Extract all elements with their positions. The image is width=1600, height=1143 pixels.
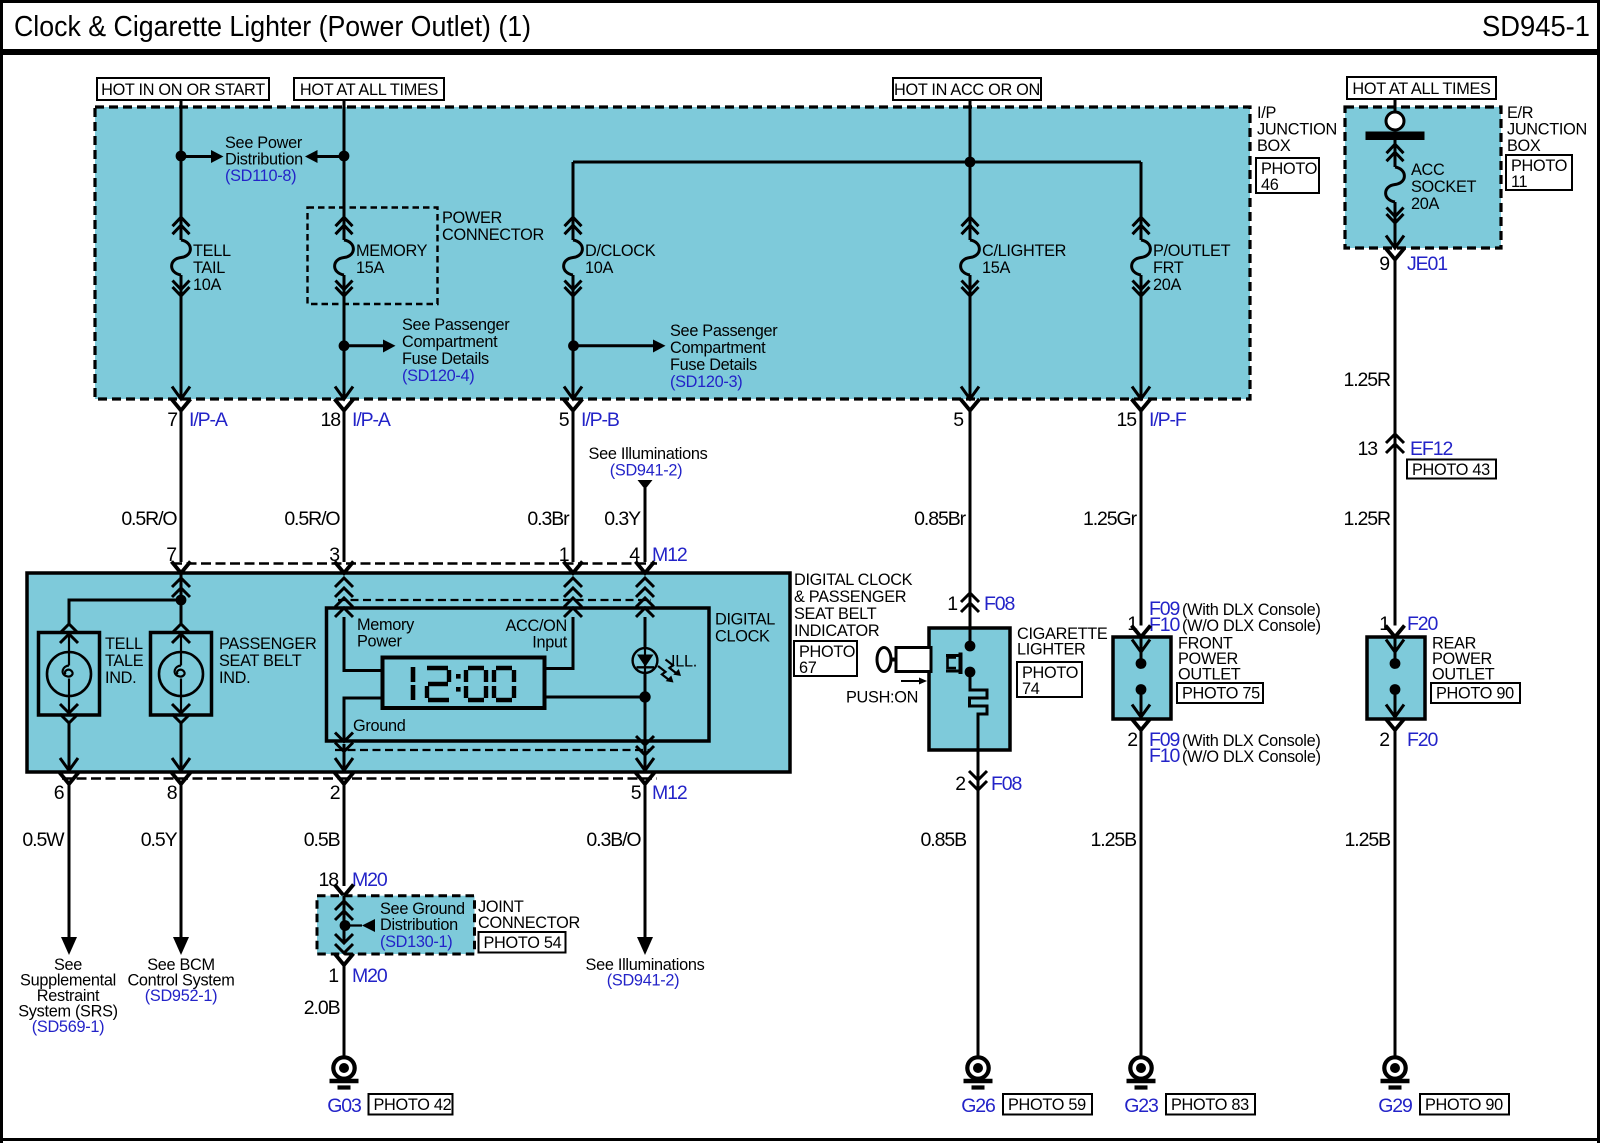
svg-text:M20: M20 — [352, 869, 388, 891]
svg-text:OUTLET: OUTLET — [1178, 666, 1241, 684]
svg-text:PHOTO 54: PHOTO 54 — [484, 934, 562, 952]
PHOTO 90 (ground) — [1420, 1094, 1509, 1115]
connector pin 5 I/P-B (box exit x=573) — [559, 387, 619, 432]
svg-text:0.5R/O: 0.5R/O — [121, 508, 177, 530]
PHOTO 11 — [1506, 155, 1572, 191]
lighter plunger knob — [877, 648, 961, 675]
fuse D/CLOCK 10A — [564, 213, 656, 296]
pin 3 entry connector (x=344) — [335, 562, 354, 598]
svg-text:See Power: See Power — [225, 134, 303, 152]
wire: tell tale lamp to box bottom — [68, 723, 71, 770]
note: See Illuminations (SD941-2) bottom — [586, 956, 705, 990]
PHOTO 54 — [479, 932, 566, 953]
node: junction tap to fuse details (wire 344) — [339, 340, 350, 351]
wire: tap to See Power Distribution (right arrow) — [181, 150, 224, 163]
svg-text:SEAT BELT: SEAT BELT — [219, 652, 302, 670]
fuse TELL TAIL 10A — [172, 213, 231, 296]
front outlet pins — [1132, 637, 1150, 717]
lamp TELL TALE IND. — [39, 624, 144, 723]
PHOTO 59 — [1003, 1094, 1092, 1115]
svg-text:See Passenger: See Passenger — [670, 322, 778, 340]
note: See BCM Control System (SD952-1) — [127, 956, 234, 1005]
pin 5 exit chevrons (x=645) — [636, 736, 654, 771]
wire: pin 8 to BCM — [173, 784, 189, 955]
wire: C/LIGHTER feed down (x=970) — [969, 411, 972, 629]
svg-text:0.5W: 0.5W — [22, 829, 65, 851]
svg-text:1: 1 — [1379, 613, 1389, 635]
ground G23 — [1124, 1057, 1158, 1117]
pin 2 exit chevrons (x=344) — [335, 733, 353, 771]
svg-text:I/P-A: I/P-A — [189, 409, 228, 431]
svg-text:BOX: BOX — [1507, 137, 1541, 155]
svg-text:G29: G29 — [1378, 1095, 1412, 1117]
svg-text:0.3Br: 0.3Br — [527, 508, 570, 530]
connector 18 M20 — [319, 869, 388, 896]
note: See Passenger Compartment Fuse Details (SD120-4) — [402, 316, 510, 385]
svg-text:CONNECTOR: CONNECTOR — [478, 914, 580, 932]
svg-text:(SD952-1): (SD952-1) — [145, 987, 217, 1005]
connector pin 7 I/P-A (box exit x=181) — [167, 387, 228, 432]
node: junction on wire 344 — [339, 151, 350, 162]
svg-text:(SD941-2): (SD941-2) — [610, 462, 682, 480]
label PUSH:ON with arrow — [846, 678, 927, 707]
svg-text:BOX: BOX — [1257, 137, 1291, 155]
svg-text:0.85B: 0.85B — [921, 829, 967, 851]
label HOT AT ALL TIMES — [294, 78, 444, 100]
svg-text:See Illuminations: See Illuminations — [589, 445, 708, 463]
wire: to ground G29 — [1394, 730, 1397, 1057]
wire: P/OUTLET drop (x=1141) — [1140, 162, 1143, 213]
exit arrow (x=181) — [172, 758, 190, 771]
svg-text:ACC: ACC — [1411, 161, 1445, 179]
POWER CONNECTOR dashed box — [308, 208, 544, 305]
svg-text:2.0B: 2.0B — [304, 997, 340, 1019]
svg-text:TAIL: TAIL — [193, 259, 225, 277]
PHOTO 43 — [1407, 460, 1496, 480]
svg-text:OUTLET: OUTLET — [1432, 666, 1495, 684]
svg-text:2: 2 — [955, 773, 965, 795]
svg-text:M20: M20 — [352, 965, 388, 987]
wire: ACC/ON feed down (x=970) — [969, 100, 972, 213]
svg-text:0.5Y: 0.5Y — [141, 829, 178, 851]
fuse ACC SOCKET 20A — [1386, 140, 1477, 223]
svg-text:Fuse Details: Fuse Details — [670, 356, 757, 374]
node: ill junction dot — [639, 691, 650, 702]
label HOT IN ON OR START — [97, 78, 269, 100]
svg-text:PHOTO 75: PHOTO 75 — [1182, 685, 1260, 703]
component CIGARETTE LIGHTER — [929, 625, 1108, 750]
wire: pin 6 to SRS — [61, 784, 77, 955]
svg-text:DIGITAL: DIGITAL — [715, 611, 775, 629]
wire: lighter output below box — [977, 750, 980, 797]
svg-text:2: 2 — [1127, 729, 1137, 751]
label HOT IN ACC OR ON — [893, 78, 1041, 100]
connector 2 F08 — [955, 771, 1021, 795]
wire: I/P-A 7 down to clock (x=181) — [180, 411, 183, 563]
svg-text:46: 46 — [1261, 176, 1279, 194]
wire: down to seat belt lamp — [180, 600, 183, 624]
svg-text:F20: F20 — [1407, 729, 1439, 751]
svg-text:PHOTO 83: PHOTO 83 — [1171, 1096, 1249, 1114]
wire: battery stub into E/R box — [1394, 99, 1397, 112]
PHOTO 67 — [794, 641, 857, 677]
wire: HOT AT ALL TIMES feed down (x=344) — [343, 100, 346, 213]
svg-text:Compartment: Compartment — [402, 333, 498, 351]
wire: D/CLOCK drop (x=573) — [572, 162, 575, 213]
wire: seat belt lamp to box bottom — [180, 723, 183, 770]
svg-text:1.25R: 1.25R — [1343, 369, 1391, 391]
svg-text:1.25B: 1.25B — [1091, 829, 1137, 851]
wire: LED to ill junction — [644, 672, 647, 697]
svg-text:TELL: TELL — [193, 242, 231, 260]
svg-text:CONNECTOR: CONNECTOR — [442, 226, 544, 244]
svg-text:IND.: IND. — [219, 669, 250, 687]
svg-text:9: 9 — [1379, 253, 1389, 275]
illumination emission arrows — [658, 660, 681, 683]
component DIGITAL CLOCK and PASSENGER SEAT BELT INDICATOR assembly box — [27, 573, 790, 772]
svg-text:8: 8 — [167, 782, 177, 804]
I/P JUNCTION BOX name — [1257, 104, 1337, 155]
heating element (lighter) — [970, 672, 988, 750]
svg-text:1.25B: 1.25B — [1345, 829, 1391, 851]
svg-text:Power: Power — [357, 633, 403, 651]
connector 1 F20 (rear outlet top) — [1379, 613, 1438, 637]
ground G29 — [1378, 1057, 1412, 1117]
pin 4 internal chevrons — [636, 598, 654, 617]
wire: to ground G03 — [343, 965, 346, 1057]
pin 4 entry connector (x=645) — [636, 562, 655, 598]
svg-text:5: 5 — [953, 409, 964, 431]
svg-text:13: 13 — [1358, 438, 1378, 460]
component FRONT POWER OUTLET — [1113, 635, 1241, 720]
svg-text:POWER: POWER — [442, 209, 502, 227]
exit arrow (x=69) — [60, 758, 78, 771]
svg-text:0.3B/O: 0.3B/O — [586, 829, 641, 851]
wire: display to ill junction — [545, 696, 646, 699]
svg-text:F08: F08 — [991, 773, 1022, 795]
wire: memory power feed — [344, 617, 383, 671]
wire: EF12 down to rear outlet — [1394, 446, 1397, 626]
svg-text:1.25Gr: 1.25Gr — [1083, 508, 1138, 530]
svg-text:P/OUTLET: P/OUTLET — [1153, 242, 1231, 260]
svg-text:(W/O DLX Console): (W/O DLX Console) — [1182, 617, 1321, 635]
pin 3 internal chevrons — [335, 598, 353, 617]
svg-text:G26: G26 — [961, 1095, 995, 1117]
PHOTO 46 — [1256, 158, 1319, 194]
svg-text:F10: F10 — [1149, 745, 1181, 767]
connector 2 F09/F10 (front outlet bottom) — [1127, 719, 1321, 768]
svg-text:CLOCK: CLOCK — [715, 628, 770, 646]
wire: illumination feed with source arrow (x=645) — [638, 480, 653, 562]
svg-text:10A: 10A — [585, 259, 614, 277]
svg-text:G23: G23 — [1124, 1095, 1158, 1117]
svg-text:INDICATOR: INDICATOR — [794, 622, 879, 640]
svg-text:TELL: TELL — [105, 635, 143, 653]
component REAR POWER OUTLET — [1367, 635, 1495, 720]
E/R junction box — [1345, 107, 1501, 248]
svg-text:(SD130-1): (SD130-1) — [380, 933, 452, 951]
note: See Passenger Compartment Fuse Details (SD120-3) — [670, 322, 778, 391]
connector 1 F09/F10 (front outlet top) — [1127, 598, 1321, 637]
wire: fuse MEMORY output down to box edge — [343, 296, 346, 399]
svg-text:SOCKET: SOCKET — [1411, 178, 1477, 196]
svg-text:20A: 20A — [1411, 195, 1440, 213]
wire: front outlet feed (x=1141) — [1140, 411, 1143, 626]
svg-text:TALE: TALE — [105, 652, 144, 670]
note: See Illuminations (SD941-2) source — [589, 445, 708, 480]
svg-text:7: 7 — [167, 409, 177, 431]
svg-text:LIGHTER: LIGHTER — [1017, 641, 1085, 659]
wire: to ground G23 — [1140, 730, 1143, 1057]
node: junction at ACC bus — [965, 157, 976, 168]
wire: ground path from display — [344, 698, 383, 741]
svg-text:0.5B: 0.5B — [304, 829, 340, 851]
PHOTO 75 — [1177, 683, 1263, 703]
svg-text:15A: 15A — [356, 259, 385, 277]
wire: tap arrow right (SD120-4) — [344, 340, 396, 353]
svg-text:2: 2 — [1379, 729, 1389, 751]
svg-text:0.5R/O: 0.5R/O — [284, 508, 340, 530]
wire: pin 5 to illuminations — [637, 784, 653, 955]
svg-text:74: 74 — [1022, 680, 1040, 698]
label ACC/ON Input — [505, 617, 567, 652]
internal connector dashed line (clock bottom) — [335, 749, 651, 751]
svg-text:0.85Br: 0.85Br — [914, 508, 966, 530]
node: battery terminal circle — [1386, 112, 1404, 130]
note: See Ground Distribution (SD130-1) — [380, 900, 465, 951]
svg-text:HOT AT ALL TIMES: HOT AT ALL TIMES — [1352, 80, 1491, 98]
svg-text:6: 6 — [54, 782, 64, 804]
wire: tap to See Power Distribution (left arrow) — [305, 150, 344, 163]
wire: ACC bus horizontal y=162 — [573, 161, 1141, 164]
svg-text:PHOTO 42: PHOTO 42 — [374, 1096, 452, 1114]
svg-text:HOT IN ACC OR ON: HOT IN ACC OR ON — [894, 81, 1040, 99]
svg-text:E/R: E/R — [1507, 104, 1533, 122]
svg-text:(SD120-3): (SD120-3) — [670, 373, 742, 391]
svg-text:F08: F08 — [984, 593, 1015, 615]
svg-text:I/P: I/P — [1257, 104, 1276, 122]
svg-text:M12: M12 — [652, 782, 687, 804]
node: junction to tell tale branch — [176, 595, 187, 606]
svg-text:11: 11 — [1511, 173, 1528, 191]
svg-text:JUNCTION: JUNCTION — [1257, 121, 1337, 139]
node: lighter contact top — [965, 641, 976, 652]
ground G03 — [327, 1057, 361, 1117]
wire: fuse D/CLOCK output down — [572, 296, 575, 399]
note: See Supplemental Restraint System (SRS) (SD569-1) — [18, 956, 118, 1036]
svg-text:JUNCTION: JUNCTION — [1507, 121, 1587, 139]
svg-text:20A: 20A — [1153, 276, 1182, 294]
svg-text:I/P-B: I/P-B — [581, 409, 619, 431]
svg-text:PHOTO 90: PHOTO 90 — [1425, 1096, 1503, 1114]
svg-text:PASSENGER: PASSENGER — [219, 635, 316, 653]
LED ILL. lamp — [633, 617, 697, 673]
node: junction on wire 181 at power distribution tap — [176, 151, 187, 162]
pin 7 entry connector (x=181) — [172, 562, 191, 598]
svg-text:M12: M12 — [652, 544, 687, 566]
svg-text:10A: 10A — [193, 276, 222, 294]
fuse C/LIGHTER 15A — [961, 213, 1067, 296]
wire: fuse C/LIGHTER output down — [969, 296, 972, 399]
svg-text:Clock & Cigarette Lighter (Pow: Clock & Cigarette Lighter (Power Outlet)… — [14, 11, 531, 43]
connector pin 5 (box exit x=970) — [953, 387, 979, 432]
svg-text:JE01: JE01 — [1407, 253, 1447, 275]
wire: fuse P/OUTLET output down — [1140, 296, 1143, 399]
connector row M12 (clock top) — [166, 544, 687, 566]
pin 1 entry connector (x=573) — [564, 562, 583, 598]
svg-text:PUSH:ON: PUSH:ON — [846, 689, 918, 707]
svg-text:D/CLOCK: D/CLOCK — [585, 242, 656, 260]
wire: ACC/ON feed — [545, 617, 574, 669]
bus bar (E/R box) — [1366, 132, 1425, 141]
wire: pin 2 ground wire down to M20 — [343, 784, 346, 886]
svg-text:IND.: IND. — [105, 669, 136, 687]
ground G26 — [961, 1057, 995, 1117]
node: lighter contact bottom — [965, 667, 976, 678]
wire: ill junction down — [644, 697, 647, 770]
PHOTO 42 — [369, 1094, 453, 1115]
svg-text:PHOTO 59: PHOTO 59 — [1008, 1096, 1086, 1114]
svg-text:See Passenger: See Passenger — [402, 316, 510, 334]
svg-text:0.3Y: 0.3Y — [604, 508, 641, 530]
lamp PASSENGER SEAT BELT IND. — [151, 624, 317, 723]
wire: pin7 down to junction — [180, 573, 183, 600]
internal connector dashed line (clock top) — [338, 599, 651, 601]
svg-text:F10: F10 — [1149, 614, 1181, 636]
svg-text:C/LIGHTER: C/LIGHTER — [982, 242, 1066, 260]
connector 13 EF12 — [1358, 434, 1453, 460]
PHOTO 83 — [1166, 1094, 1255, 1115]
pin 1 internal chevrons — [564, 598, 582, 617]
connector 1 M20 — [328, 954, 388, 988]
wire: I/P-A 18 down to clock (x=344) — [343, 411, 346, 563]
svg-text:1: 1 — [328, 965, 338, 987]
wire: branch to tell tale lamp — [69, 600, 181, 624]
svg-text:F20: F20 — [1407, 613, 1439, 635]
E/R JUNCTION BOX name — [1507, 104, 1587, 155]
wire: to ground G26 — [977, 797, 980, 1057]
svg-text:1: 1 — [947, 593, 957, 615]
label Memory Power — [357, 616, 415, 651]
svg-text:(SD569-1): (SD569-1) — [32, 1018, 104, 1036]
svg-text:Ground: Ground — [353, 717, 406, 735]
svg-text:ILL.: ILL. — [671, 653, 697, 671]
svg-text:FRT: FRT — [1153, 259, 1184, 277]
svg-text:5: 5 — [559, 409, 570, 431]
svg-text:5: 5 — [631, 782, 642, 804]
svg-text:EF12: EF12 — [1410, 438, 1452, 460]
svg-text:15A: 15A — [982, 259, 1011, 277]
svg-text:2: 2 — [330, 782, 340, 804]
svg-text:Distribution: Distribution — [225, 151, 303, 169]
fuse P/OUTLET FRT 20A — [1132, 213, 1231, 296]
connector 1 F08 — [947, 593, 1014, 615]
svg-text:& PASSENGER: & PASSENGER — [794, 588, 906, 606]
connector 2 F20 (rear outlet bottom) — [1379, 719, 1438, 752]
svg-text:18: 18 — [321, 409, 341, 431]
svg-text:67: 67 — [799, 659, 817, 677]
wire: fuse TELL TAIL output down — [180, 296, 183, 399]
svg-text:(SD120-4): (SD120-4) — [402, 367, 474, 385]
wire: ON/START feed down (x=181) — [180, 100, 183, 213]
wire: JE01 down to EF12 — [1394, 260, 1397, 447]
svg-text:ACC/ON: ACC/ON — [505, 617, 567, 635]
wire: tap arrow right (SD120-3) — [574, 340, 666, 353]
svg-text:(SD941-2): (SD941-2) — [607, 972, 679, 990]
svg-text:15: 15 — [1117, 409, 1138, 431]
svg-text:Input: Input — [532, 634, 567, 652]
connector pin 9 JE01 (E/R box exit) — [1379, 236, 1447, 276]
svg-text:HOT AT ALL TIMES: HOT AT ALL TIMES — [300, 81, 439, 99]
svg-text:G03: G03 — [327, 1095, 361, 1117]
JOINT CONNECTOR dashed box — [317, 896, 580, 954]
svg-text:I/P-A: I/P-A — [352, 409, 391, 431]
svg-text:PHOTO 43: PHOTO 43 — [1412, 461, 1490, 479]
rear outlet pins — [1386, 637, 1404, 717]
connector pin 18 I/P-A (box exit x=344) — [321, 387, 391, 432]
PHOTO 90 (rear outlet) — [1431, 683, 1520, 703]
svg-text:I/P-F: I/P-F — [1149, 409, 1187, 431]
node: junction tap to fuse details (wire 573) — [568, 340, 579, 351]
label HOT AT ALL TIMES (right) — [1347, 77, 1496, 99]
clock display 12:00 — [383, 658, 545, 709]
svg-text:SEAT BELT: SEAT BELT — [794, 605, 877, 623]
svg-text:(W/O DLX Console): (W/O DLX Console) — [1182, 748, 1321, 766]
svg-text:PHOTO 90: PHOTO 90 — [1436, 685, 1514, 703]
wire: lighter input to contact — [969, 628, 972, 644]
svg-text:SD945-1: SD945-1 — [1482, 11, 1590, 43]
svg-text:(SD110-8): (SD110-8) — [225, 167, 296, 185]
svg-text:1.25R: 1.25R — [1343, 508, 1391, 530]
I/P junction box (power distribution area) — [95, 107, 1250, 399]
svg-text:HOT IN ON OR START: HOT IN ON OR START — [101, 81, 265, 99]
wire: I/P-B 5 down to clock (x=573) — [572, 411, 575, 563]
svg-text:MEMORY: MEMORY — [356, 242, 428, 260]
inner DIGITAL CLOCK box — [327, 608, 776, 741]
note: See Power Distribution (SD110-8) — [225, 134, 303, 185]
svg-text:Memory: Memory — [357, 616, 415, 634]
svg-text:Fuse Details: Fuse Details — [402, 350, 489, 368]
PHOTO 74 — [1017, 662, 1082, 698]
connector pin 15 I/P-F (box exit x=1141) — [1117, 387, 1187, 432]
svg-text:Compartment: Compartment — [670, 339, 766, 357]
svg-text:DIGITAL CLOCK: DIGITAL CLOCK — [794, 571, 913, 589]
name: DIGITAL CLOCK and PASSENGER SEAT BELT INDICATOR — [794, 571, 913, 640]
fuse MEMORY 15A — [335, 213, 428, 296]
connector row M12 (clock bottom) — [54, 773, 687, 805]
joint connector internals — [335, 896, 375, 953]
wire: fuse output to box edge — [1394, 223, 1397, 248]
svg-text:Distribution: Distribution — [380, 916, 458, 934]
